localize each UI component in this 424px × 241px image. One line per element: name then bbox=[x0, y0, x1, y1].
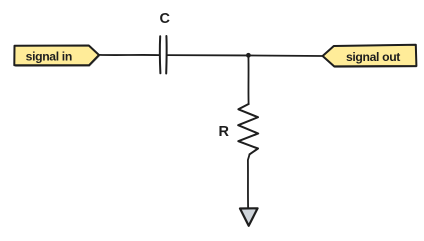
ground bbox=[240, 208, 258, 226]
svg-text:signal in: signal in bbox=[26, 49, 72, 63]
capacitor C bbox=[160, 36, 167, 74]
junction node bbox=[246, 53, 251, 58]
net label "signal in" bbox=[14, 46, 99, 67]
wire: resistor bottom to ground bbox=[248, 154, 250, 207]
wire: capacitor right plate to signal-out tip (with junction) bbox=[167, 54, 323, 57]
net label "signal out" bbox=[323, 45, 417, 68]
svg-text:signal out: signal out bbox=[346, 50, 400, 64]
resistor R bbox=[238, 104, 258, 154]
wire: junction to resistor R top bbox=[247, 55, 249, 104]
svg-text:R: R bbox=[218, 124, 229, 140]
wire: signal-in tip to capacitor left plate bbox=[99, 54, 159, 56]
value label R bbox=[218, 124, 229, 140]
svg-text:C: C bbox=[160, 11, 171, 27]
value label C bbox=[160, 11, 171, 27]
